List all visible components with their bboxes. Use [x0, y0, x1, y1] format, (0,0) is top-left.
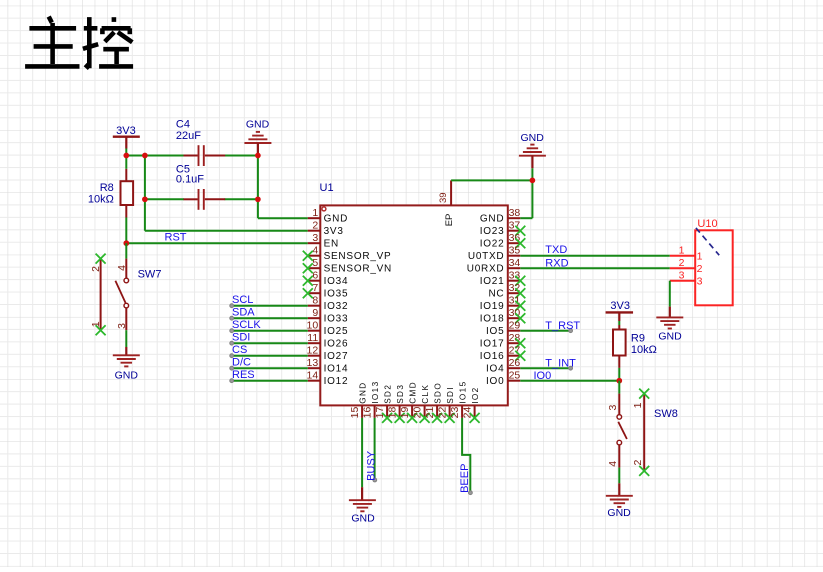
wire SW7 top [125, 243, 127, 258]
wire net T_RST [520, 320, 580, 333]
svg-text:34: 34 [509, 257, 521, 269]
svg-text:IO16: IO16 [480, 351, 505, 362]
svg-text:IO15: IO15 [458, 380, 467, 403]
U1 right pin 30 IO18 [480, 307, 526, 324]
U1 left pin 3 EN [308, 232, 339, 249]
SW8 pin 3 [618, 394, 620, 415]
svg-text:2: 2 [312, 220, 318, 232]
power flag 3V3 (right) [606, 300, 634, 321]
wire net D/C [230, 357, 308, 371]
svg-text:SDI: SDI [446, 386, 455, 404]
U1 right pin 37 IO23 [480, 220, 526, 237]
svg-text:3V3: 3V3 [610, 300, 630, 312]
svg-text:IO35: IO35 [324, 289, 349, 300]
svg-text:SW7: SW7 [138, 269, 162, 281]
svg-text:IO0: IO0 [486, 376, 504, 387]
U1 bottom pin 16 IO13 [361, 380, 379, 418]
svg-text:23: 23 [449, 407, 461, 419]
svg-text:9: 9 [312, 307, 318, 319]
ground GND (below U1 pin15) [349, 487, 376, 524]
wire net RST (to U1 EN pin3) [126, 242, 307, 244]
svg-text:IO5: IO5 [486, 326, 504, 337]
U1 right pin 27 IO16 [480, 345, 526, 362]
wire SW7 to GND [125, 330, 127, 347]
svg-text:RXD: RXD [545, 257, 568, 269]
svg-text:U1: U1 [320, 182, 334, 194]
U1 right pin 32 NC [488, 282, 525, 299]
svg-text:IO22: IO22 [480, 239, 505, 250]
wire net BEEP (U1 pin23) [459, 418, 472, 495]
capacitor C4 22uF [176, 118, 225, 166]
U1 left pin 7 IO35 [303, 282, 348, 299]
svg-text:SCLK: SCLK [232, 319, 261, 331]
wire net CS [230, 344, 308, 358]
svg-text:CS: CS [232, 344, 247, 356]
wire net T_INT [520, 357, 576, 370]
wire R8 top [125, 156, 127, 169]
U1 left pin 11 IO26 [307, 332, 348, 349]
U1 right pin 26 IO4 [486, 357, 520, 374]
svg-text:EP: EP [444, 214, 455, 227]
svg-text:25: 25 [509, 370, 521, 382]
svg-text:U10: U10 [697, 218, 717, 230]
svg-text:BUSY: BUSY [365, 450, 377, 481]
svg-text:BEEP: BEEP [459, 464, 471, 493]
svg-text:16: 16 [361, 407, 373, 419]
wire net RES [230, 369, 308, 383]
svg-text:26: 26 [509, 357, 521, 369]
svg-text:T_RST: T_RST [545, 320, 580, 332]
SW8 pins 1-2 bar [643, 394, 645, 471]
U1 left pin 5 SENSOR_VN [303, 257, 392, 274]
svg-text:2: 2 [90, 266, 102, 272]
U1 right pin 36 IO22 [480, 232, 526, 249]
svg-text:U0TXD: U0TXD [468, 251, 505, 262]
svg-text:U0RXD: U0RXD [467, 264, 505, 275]
svg-text:GND: GND [246, 119, 270, 131]
svg-text:TXD: TXD [545, 244, 567, 256]
svg-text:3: 3 [697, 275, 703, 287]
svg-text:22: 22 [436, 407, 448, 419]
svg-text:3V3: 3V3 [116, 125, 136, 137]
wire net RXD [520, 267, 670, 269]
svg-text:19: 19 [399, 407, 411, 419]
svg-text:GND: GND [480, 214, 504, 225]
svg-text:IO0: IO0 [534, 370, 552, 382]
U1 left pin 4 SENSOR_VP [303, 245, 392, 262]
U10 pin 3 [670, 280, 695, 282]
svg-text:D/C: D/C [232, 357, 251, 369]
U1 bottom pin 24 IO2 [461, 386, 479, 423]
svg-text:IO17: IO17 [480, 339, 505, 350]
SW7 pins 2-1 bar [100, 259, 102, 331]
U10 pin 1 [670, 255, 695, 257]
U1 left pin 13 IO14 [307, 357, 349, 374]
resistor R9 10k [613, 325, 657, 368]
ground GND (below SW8) [606, 483, 633, 519]
U1 bottom pin 22 SDI [436, 386, 454, 423]
svg-text:17: 17 [374, 407, 386, 419]
svg-text:2: 2 [697, 263, 703, 275]
wire 3V3 to R9 [618, 321, 620, 325]
U1 right pin 28 IO17 [480, 332, 526, 349]
op-amp U1 (ESP32 module symbol) [320, 205, 508, 405]
wire U10 pin3 to GND [669, 281, 671, 307]
svg-text:15: 15 [349, 407, 361, 419]
svg-text:SW8: SW8 [654, 408, 678, 420]
ground GND (below SW7) [113, 347, 140, 381]
svg-text:18: 18 [386, 407, 398, 419]
U1 left pin 14 IO12 [307, 370, 349, 387]
U1 bottom pin 17 SD2 [374, 384, 392, 423]
svg-text:GND: GND [521, 132, 545, 144]
svg-text:8: 8 [312, 295, 318, 307]
U1 pin-1 indicator [322, 207, 326, 211]
wire R8 bottom to RST node [125, 218, 127, 244]
wire vertical B column to pin2 [144, 156, 146, 231]
U1 bottom pin 20 CLK [411, 384, 429, 423]
svg-text:IO18: IO18 [480, 314, 505, 325]
svg-text:IO2: IO2 [471, 386, 480, 403]
SW7 pin 4 [125, 259, 127, 279]
svg-text:SDI: SDI [232, 332, 250, 344]
svg-text:3V3: 3V3 [324, 226, 344, 237]
wire 3V3 stem [125, 149, 127, 156]
U1 right pin 34 U0RXD [467, 257, 521, 274]
svg-text:NC: NC [488, 289, 504, 300]
U1 left pin 12 IO27 [307, 345, 349, 362]
U1 right pin 35 U0TXD [468, 245, 521, 262]
svg-text:11: 11 [307, 332, 318, 344]
svg-text:21: 21 [424, 407, 436, 419]
wire SW8 top [618, 381, 620, 394]
svg-text:22uF: 22uF [176, 130, 201, 142]
U1 bottom pin 18 SD3 [386, 384, 404, 423]
svg-text:SCL: SCL [232, 294, 253, 306]
svg-text:GND: GND [658, 331, 682, 343]
svg-text:GND: GND [358, 381, 367, 403]
U1 right pin 31 IO19 [480, 295, 526, 312]
ground GND (above EP net) [519, 132, 546, 168]
capacitor C5 0.1uF [176, 163, 225, 209]
svg-text:SD2: SD2 [383, 384, 392, 404]
svg-text:R9: R9 [631, 332, 645, 344]
junction dots top-left [123, 153, 129, 159]
svg-text:39: 39 [438, 192, 449, 203]
svg-text:IO12: IO12 [324, 376, 349, 387]
svg-text:12: 12 [307, 345, 319, 357]
wire R9 bottom [618, 368, 620, 381]
svg-text:GND: GND [351, 513, 375, 525]
svg-text:24: 24 [461, 407, 473, 419]
svg-text:GND: GND [115, 369, 139, 381]
U1 bottom pin 15 GND [349, 381, 367, 418]
svg-text:3: 3 [116, 323, 128, 329]
wire SW8 to GND [618, 468, 620, 484]
svg-text:3: 3 [312, 232, 318, 244]
wire net TXD [520, 255, 670, 257]
svg-text:CLK: CLK [421, 384, 430, 404]
svg-text:0.1uF: 0.1uF [176, 173, 204, 185]
svg-text:20: 20 [411, 407, 423, 419]
svg-text:35: 35 [509, 245, 521, 257]
svg-text:EN: EN [324, 239, 339, 250]
svg-text:7: 7 [312, 282, 318, 294]
U1 right pin 29 IO5 [486, 320, 520, 337]
wire net EP to GND [451, 179, 532, 181]
wire net GND (U1 pin15) [361, 418, 363, 487]
svg-text:GND: GND [607, 507, 631, 519]
svg-text:1: 1 [679, 244, 685, 256]
svg-text:IO23: IO23 [480, 226, 505, 237]
connector U10 [670, 218, 733, 305]
svg-text:IO27: IO27 [324, 351, 349, 362]
svg-text:13: 13 [307, 357, 319, 369]
svg-text:IO13: IO13 [371, 380, 380, 403]
svg-text:T_INT: T_INT [545, 357, 576, 369]
resistor R8 10k [88, 169, 133, 218]
svg-text:1: 1 [697, 250, 703, 262]
wire net SCLK [230, 319, 308, 333]
SW7 pin 3 [125, 308, 127, 330]
SW7 arm [115, 281, 125, 303]
svg-text:IO25: IO25 [324, 326, 349, 337]
svg-text:38: 38 [509, 207, 521, 219]
U1 right pin 33 IO21 [480, 270, 526, 287]
switch SW7 [90, 243, 162, 335]
svg-text:2: 2 [632, 460, 644, 466]
SW8 arm [618, 422, 627, 439]
SW8 pin 4 [618, 445, 620, 468]
wire net SDI [230, 332, 308, 346]
U1 right pin 25 IO0 [486, 370, 520, 387]
svg-text:IO14: IO14 [324, 364, 349, 375]
wire C5 row (y=199.3) [145, 198, 184, 200]
svg-text:4: 4 [312, 245, 318, 257]
U1 bottom pin 21 SDO [424, 382, 442, 423]
svg-text:GND: GND [324, 214, 348, 225]
svg-text:1: 1 [312, 207, 318, 219]
svg-text:C4: C4 [176, 118, 190, 130]
svg-text:3: 3 [607, 405, 619, 411]
svg-text:IO4: IO4 [486, 364, 504, 375]
svg-text:IO34: IO34 [324, 276, 349, 287]
U1 right pin 38 GND [480, 207, 521, 224]
wire vertical C column to pin1 [257, 156, 259, 219]
U1 top pin 39 EP [438, 180, 455, 226]
power flag 3V3 (left) [113, 125, 140, 149]
svg-text:IO21: IO21 [480, 276, 505, 287]
ground GND (top-left, above wire) [244, 119, 271, 156]
svg-text:1: 1 [632, 402, 644, 408]
svg-text:4: 4 [116, 265, 128, 271]
svg-text:SENSOR_VN: SENSOR_VN [324, 264, 392, 275]
svg-text:2: 2 [679, 257, 685, 269]
svg-text:IO26: IO26 [324, 339, 349, 350]
U1 left pin 8 IO32 [308, 295, 348, 312]
wire 3V3 row (y=155.5) [126, 155, 184, 157]
U10 pin 2 [670, 267, 695, 269]
svg-text:RST: RST [165, 231, 187, 243]
wire net SCL [230, 294, 308, 308]
svg-text:1: 1 [90, 321, 102, 327]
svg-text:IO33: IO33 [324, 314, 349, 325]
switch SW8 [607, 381, 678, 476]
svg-text:SD3: SD3 [396, 384, 405, 404]
wire net IO0 [520, 380, 619, 382]
ground GND (below U10) [656, 307, 683, 343]
svg-text:4: 4 [607, 461, 619, 467]
svg-text:10: 10 [307, 320, 319, 332]
svg-text:R8: R8 [100, 182, 114, 194]
svg-text:SENSOR_VP: SENSOR_VP [324, 251, 392, 262]
svg-text:10kΩ: 10kΩ [631, 344, 657, 356]
U1 left pin 1 GND [308, 207, 348, 224]
svg-text:IO19: IO19 [480, 301, 505, 312]
wire net SDA [230, 307, 308, 321]
U1 left pin 10 IO25 [307, 320, 349, 337]
U1 left pin 9 IO33 [308, 307, 348, 324]
U1 bottom pin 23 IO15 [449, 380, 467, 418]
svg-text:14: 14 [307, 370, 319, 382]
svg-text:CMD: CMD [408, 381, 417, 404]
U1 left pin 6 IO34 [303, 270, 348, 287]
svg-text:SDO: SDO [433, 382, 442, 404]
svg-text:5: 5 [312, 257, 318, 269]
svg-text:29: 29 [509, 320, 521, 332]
U1 left pin 2 3V3 [308, 220, 344, 237]
svg-text:3: 3 [679, 269, 685, 281]
title text 主控 (main control) drawn as strokes [25, 17, 133, 69]
svg-text:SDA: SDA [232, 307, 255, 319]
svg-text:RES: RES [232, 369, 255, 381]
svg-text:6: 6 [312, 270, 318, 282]
svg-text:IO32: IO32 [324, 301, 349, 312]
svg-text:10kΩ: 10kΩ [88, 193, 114, 205]
wire net BUSY (U1 pin16) [365, 418, 377, 482]
U1 bottom pin 19 CMD [399, 381, 417, 423]
